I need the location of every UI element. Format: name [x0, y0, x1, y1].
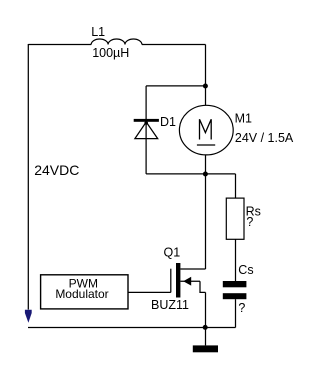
svg-text:Q1: Q1: [164, 245, 181, 259]
svg-text:?: ?: [246, 215, 253, 229]
svg-text:24V / 1.5A: 24V / 1.5A: [235, 131, 294, 145]
svg-text:?: ?: [238, 301, 245, 315]
svg-text:L1: L1: [91, 25, 105, 39]
svg-text:24VDC: 24VDC: [34, 162, 79, 178]
svg-text:M1: M1: [235, 112, 252, 126]
svg-text:Modulator: Modulator: [55, 287, 108, 301]
svg-text:Cs: Cs: [238, 263, 253, 277]
svg-text:BUZ11: BUZ11: [151, 298, 189, 312]
svg-text:D1: D1: [160, 115, 176, 129]
svg-text:100µH: 100µH: [92, 46, 129, 60]
